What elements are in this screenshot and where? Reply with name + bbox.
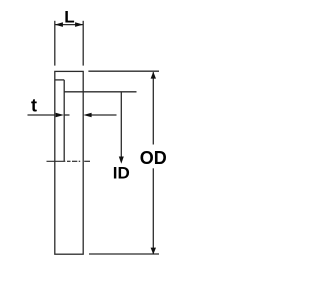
svg-text:t: t <box>31 96 37 116</box>
svg-text:ID: ID <box>113 164 130 183</box>
svg-text:OD: OD <box>140 148 167 168</box>
svg-text:L: L <box>64 7 74 26</box>
